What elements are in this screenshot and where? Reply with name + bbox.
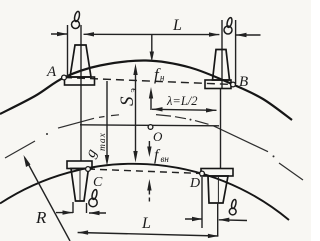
horizontal line through O [80,125,219,126]
svg-text:L: L [141,215,151,232]
svg-text:S: S [117,96,138,106]
node A marker [62,75,67,80]
dimension b bottom-left [56,212,73,214]
outer rail arc [0,60,292,120]
dimension b top-right: arrow and tail [236,34,261,36]
svg-text:н: н [160,73,165,83]
dimension b top-left: tail and arrow [51,33,68,35]
picket C body [71,169,89,202]
svg-text:вн: вн [161,154,170,164]
extension B base down to picket D [220,88,222,169]
inner rail arc [0,164,289,220]
label b bottom-right [229,199,237,215]
picket A center extension line (down to picket C) [80,25,82,161]
f_vn up arrow [147,179,151,191]
node D marker [200,171,205,176]
f_n up arrow below chord [150,98,152,110]
svg-text:R: R [35,208,47,227]
track axis arc (dash-dot segments) [5,115,303,180]
svg-text:λ=L/2: λ=L/2 [166,94,198,108]
svg-text:B: B [239,74,248,90]
picket C center line [79,169,81,202]
node C marker [86,167,91,172]
f_n center line with down arrow to arc apex [151,35,153,53]
picket D body [208,176,228,203]
svg-text:O: O [153,129,163,144]
picket B body [213,50,230,81]
picket C cap [67,161,92,169]
svg-text:э: э [127,88,139,93]
picket A base plate [65,77,95,85]
dimension L bottom [78,233,219,237]
svg-text:L: L [172,17,182,34]
dimension lambda = L/2 [152,109,217,110]
g_max dimension line with down arrow [106,81,108,157]
svg-text:A: A [46,64,57,80]
picket B base plate [205,80,231,89]
svg-text:C: C [93,175,103,190]
f_vn down arrow [148,141,150,147]
picket D extension lines [201,177,203,228]
picket A body [70,45,91,77]
chord C-D (dashed) [88,169,202,174]
label b bottom-left [89,189,98,207]
label b top-left [72,11,81,29]
picket D center line [217,176,219,203]
R radius arrow [25,158,70,241]
label b top-right [224,17,233,34]
svg-text:D: D [189,176,200,191]
picket A extension line left [67,25,69,77]
label S_e (rotated) [117,88,139,106]
dimension L top: line from b to B with arrows [84,33,220,35]
picket B right extension line [235,20,237,84]
picket B center extension line [221,20,223,88]
node B marker [231,82,236,87]
dimension b bottom-right [185,218,203,220]
picket D cap [201,169,233,177]
f_vn dashed tail below [148,191,150,203]
svg-text:max: max [98,132,108,151]
S_e dimension line with two arrows [135,72,137,154]
picket C bottom extension lines [72,202,74,213]
node O marker [148,125,153,130]
chord A-B (dashed) [64,78,233,85]
